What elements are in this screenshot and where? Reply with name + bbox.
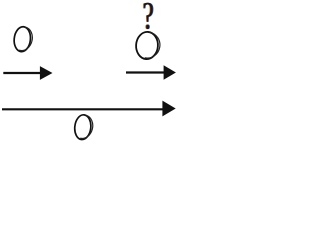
svg-text:?: ? (143, 0, 154, 38)
